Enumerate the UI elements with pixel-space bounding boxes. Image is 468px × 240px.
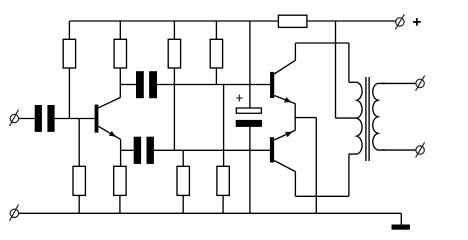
- wire secondary bottom to output terminal: [382, 149, 416, 151]
- wire Q1 emitter down to R6: [120, 139, 122, 166]
- terminal ground (bottom left): [10, 205, 19, 221]
- wire R2 bottom to Q1 collector node: [119, 68, 121, 98]
- transistor Q3 (lower push-pull): [270, 130, 295, 171]
- capacitor C3: [134, 137, 154, 164]
- wire secondary top to output terminal: [382, 82, 416, 84]
- ground symbol: [392, 225, 410, 230]
- wire R4 bottom lead: [215, 68, 217, 85]
- resistor R8: [217, 166, 229, 213]
- capacitor C4 electrolytic plus sign: [236, 95, 242, 102]
- label plus sign: [413, 18, 421, 26]
- top supply rail (right section): [307, 20, 396, 22]
- transformer T1 secondary winding: [373, 83, 386, 150]
- resistor R5: [73, 119, 85, 214]
- transformer T1 primary winding: [349, 82, 362, 154]
- wire emitter node to C3: [121, 149, 134, 151]
- terminal plus supply (top right): [395, 14, 404, 29]
- wire up to primary bottom lead: [348, 154, 350, 196]
- resistor R4: [210, 21, 222, 68]
- wire down to primary top lead: [348, 43, 350, 82]
- capacitor C1 (input coupling): [35, 105, 55, 132]
- wire Q2 collector up: [294, 43, 296, 61]
- transistor Q2 (upper push-pull): [270, 60, 295, 103]
- resistor R6: [114, 166, 126, 213]
- wire C3 to Q3 base (lower signal wire): [154, 149, 270, 151]
- top supply rail (left section): [69, 20, 278, 22]
- resistor R1: [63, 21, 75, 68]
- wire Q3 collector to transformer primary bottom: [295, 195, 349, 197]
- wire Q1 collector node to C2: [120, 84, 136, 86]
- wire C1 to Q1 base: [55, 118, 95, 120]
- resistor R2: [114, 21, 126, 68]
- resistor R7: [177, 150, 189, 213]
- wire C2 to Q2 base (upper signal wire): [157, 84, 270, 86]
- wire input terminal to C1: [19, 118, 35, 120]
- transistor Q1: [95, 98, 121, 140]
- wire joined emitters of Q2 and Q3: [294, 103, 296, 130]
- bottom ground rail: [19, 212, 402, 214]
- wire R1 bottom to base node: [68, 68, 70, 119]
- terminal input (left): [10, 110, 19, 126]
- capacitor C4 electrolytic: [236, 108, 262, 127]
- resistor R3: [168, 21, 180, 68]
- wire emitter node to ground drop: [295, 117, 316, 119]
- wire R3 bottom down to lower signal wire: [173, 68, 175, 150]
- wire supply rail down to C4: [249, 21, 251, 107]
- wire Q2 collector to transformer primary top: [295, 42, 349, 44]
- terminal output upper: [416, 76, 425, 91]
- wire C4 bottom to ground rail: [249, 127, 251, 213]
- wire upper signal wire down to R8: [223, 85, 225, 167]
- wire Q3 collector down: [294, 171, 296, 196]
- capacitor C2: [136, 71, 157, 98]
- resistor R9 (supply feed, horizontal): [278, 15, 307, 27]
- transformer T1 core: [366, 77, 369, 161]
- wire rail end down to ground symbol: [400, 213, 402, 224]
- wire supply rail to transformer center tap: [336, 21, 357, 118]
- wire emitter node down to ground rail: [315, 118, 317, 214]
- terminal output lower: [416, 142, 425, 157]
